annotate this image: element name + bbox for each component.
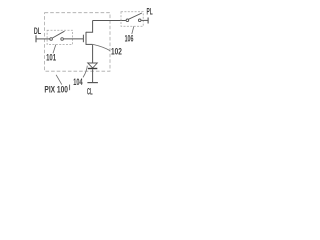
terminal DL tick <box>35 35 37 42</box>
switch 106 arm <box>129 13 142 19</box>
leader line for 104 <box>83 66 87 78</box>
switch 101 left contact <box>50 38 53 41</box>
wire: transistor source down to diode 104 <box>92 44 94 63</box>
svg-text:CL: CL <box>87 86 93 97</box>
diode 104 triangle (anode) <box>88 63 98 68</box>
svg-text:102: 102 <box>111 46 122 57</box>
transistor 102 source stub <box>86 43 93 45</box>
svg-text:106: 106 <box>125 32 134 43</box>
wire: transistor drain to switch 106 <box>93 20 126 22</box>
svg-text:PIX 100: PIX 100 <box>44 84 68 95</box>
dashed box around switch 106 <box>121 12 143 26</box>
svg-text:PL: PL <box>147 6 153 17</box>
stroke artifact after PIX 100 <box>69 85 71 91</box>
leader line for 101 <box>53 45 56 54</box>
leader line for 106 <box>132 26 134 34</box>
switch 101 right contact <box>61 38 64 41</box>
wire: diode cathode down to CL terminal <box>92 69 94 82</box>
leader line for PIX 100 <box>56 75 62 85</box>
switch 101 arm <box>52 31 64 38</box>
transistor 102 gate bar <box>82 35 84 43</box>
diode 104 cathode bar <box>88 68 97 70</box>
terminal CL bar <box>87 82 98 84</box>
svg-text:104: 104 <box>73 76 83 87</box>
switch 106 right contact <box>138 19 141 22</box>
leader line for 102 <box>93 44 110 50</box>
transistor 102 channel bar <box>85 32 87 45</box>
wire: switch 106 to PL terminal <box>141 19 148 21</box>
terminal PL tick <box>147 18 149 24</box>
dashed box around switch 101 <box>47 30 72 44</box>
transistor 102 drain stub <box>86 21 93 33</box>
svg-text:101: 101 <box>46 51 56 62</box>
pixel boundary box PIX 100 (dash-dot rectangle) <box>45 13 110 71</box>
wire: DL terminal to switch 101 <box>36 38 50 40</box>
switch 106 left contact <box>126 19 129 22</box>
wire: switch 101 to gate of transistor 102 <box>64 38 84 40</box>
svg-text:DL: DL <box>34 25 41 36</box>
